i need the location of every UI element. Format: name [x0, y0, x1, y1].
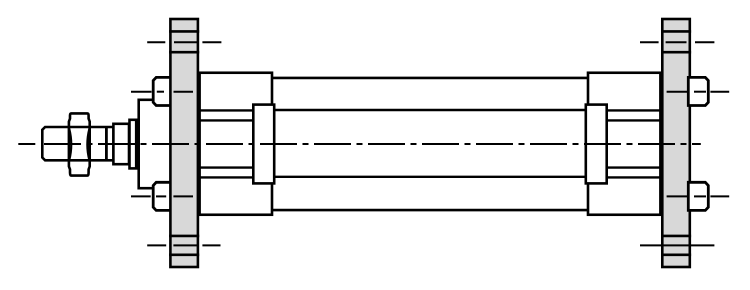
right flange top hole lines — [661, 31, 691, 52]
tie-rod centerline top-left — [131, 91, 193, 93]
right cushion boss — [586, 105, 607, 184]
main centerline — [18, 143, 701, 145]
tie-rod nut bottom-left — [153, 182, 172, 210]
tie-rod nut top-right — [688, 77, 708, 105]
tie-rod nut top-left — [153, 77, 172, 105]
right head bore lines — [607, 110, 661, 177]
rod collar — [113, 124, 129, 164]
flange hole centerline bottom-left — [147, 244, 220, 246]
rod boss plate — [139, 100, 172, 188]
flange hole centerline top-left — [147, 41, 221, 43]
left flange top hole lines — [169, 31, 199, 52]
tie-rod nut bottom-right — [688, 182, 708, 210]
rod hex nut — [69, 113, 90, 175]
flange hole centerline bottom-right — [640, 244, 714, 246]
right flange bottom hole lines — [661, 236, 691, 255]
tie-rod centerline top-right — [667, 91, 730, 93]
left head bore lines — [200, 110, 254, 177]
right flange — [662, 19, 690, 267]
tie-rod centerline bottom-left — [131, 195, 193, 197]
left flange bottom hole lines — [169, 236, 199, 255]
left cushion boss — [253, 105, 274, 184]
right head block — [588, 73, 660, 215]
tube outer lines — [272, 78, 588, 210]
tube inner lines — [274, 110, 586, 177]
tie-rod centerline bottom-right — [667, 195, 730, 197]
piston rod threaded stud — [42, 127, 113, 160]
thread end line — [105, 127, 108, 160]
left head block — [200, 73, 272, 215]
left flange — [170, 19, 198, 267]
collar lip — [130, 120, 137, 169]
flange hole centerline top-right — [640, 41, 714, 43]
